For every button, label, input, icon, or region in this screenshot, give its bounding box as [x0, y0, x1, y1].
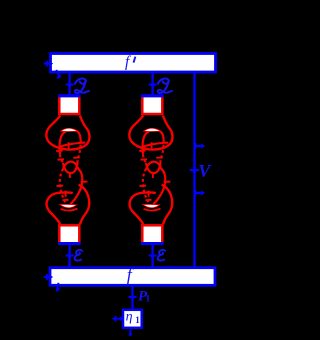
- svg-text:V: V: [198, 161, 212, 181]
- svg-text:1: 1: [146, 293, 151, 303]
- svg-text:η: η: [126, 309, 133, 324]
- svg-text:1: 1: [135, 315, 140, 325]
